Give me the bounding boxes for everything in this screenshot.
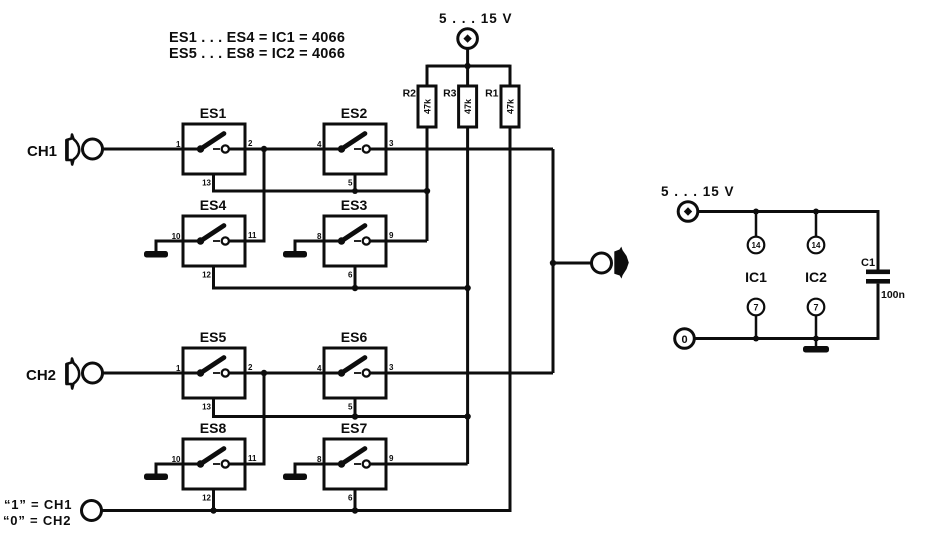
svg-text:47k: 47k bbox=[506, 98, 516, 114]
CH1 input terminal bbox=[83, 139, 103, 159]
CH2 input arrow icon bbox=[67, 359, 80, 389]
junction CH2 line to ES8 branch bbox=[261, 370, 267, 376]
junction ES2 pin5 on control row bbox=[352, 188, 358, 194]
svg-text:R3: R3 bbox=[443, 88, 457, 100]
svg-text:11: 11 bbox=[248, 231, 257, 240]
svg-text:100n: 100n bbox=[881, 289, 905, 301]
junction R2 line on control row bbox=[424, 188, 430, 194]
analog switch ES3 bbox=[317, 197, 394, 280]
wire output bus vertical bbox=[552, 149, 555, 373]
svg-text:ES6: ES6 bbox=[341, 329, 368, 345]
wire R1 down to control line bbox=[509, 127, 512, 511]
ground at ES7 bbox=[283, 474, 307, 481]
svg-text:2: 2 bbox=[248, 139, 253, 148]
svg-text:4: 4 bbox=[317, 364, 322, 373]
svg-text:ES4: ES4 bbox=[200, 197, 227, 213]
junction bottom rail IC1 bbox=[753, 336, 759, 342]
CH2 input terminal bbox=[83, 363, 103, 383]
analog switch ES7 bbox=[317, 420, 394, 503]
svg-text:47k: 47k bbox=[463, 98, 473, 114]
wire rail to IC2 pin14 bbox=[815, 212, 818, 237]
wire R2 down to ES3 output node bbox=[426, 127, 429, 241]
wire ES3 pin8 to ground bbox=[295, 241, 324, 252]
wire ES5 to ES6 bbox=[245, 372, 324, 375]
junction rail IC2 bbox=[813, 209, 819, 215]
svg-text:5: 5 bbox=[348, 179, 353, 188]
junction output node bbox=[550, 260, 556, 266]
svg-text:ES1: ES1 bbox=[200, 105, 227, 121]
output arrow (filled) bbox=[614, 247, 629, 279]
svg-text:3: 3 bbox=[389, 139, 394, 148]
svg-text:6: 6 bbox=[348, 271, 353, 280]
control input terminal bbox=[82, 501, 102, 521]
svg-text:C1: C1 bbox=[861, 257, 875, 269]
junction on top rail bbox=[464, 63, 470, 69]
svg-text:“1” = CH1: “1” = CH1 bbox=[4, 497, 72, 512]
svg-text:13: 13 bbox=[202, 179, 211, 188]
svg-text:7: 7 bbox=[753, 303, 758, 313]
wire ES4 pin10 to ground bbox=[156, 241, 183, 252]
CH1 input arrow icon bbox=[67, 135, 80, 165]
svg-text:0: 0 bbox=[681, 334, 687, 346]
IC2 pin 14 bbox=[808, 237, 825, 254]
wire right top rail bbox=[698, 212, 878, 270]
analog switch ES8 bbox=[172, 420, 257, 503]
svg-text:ES3: ES3 bbox=[341, 197, 368, 213]
wire C1 bottom to rail bbox=[877, 284, 880, 340]
junction ES7 pin6 bbox=[352, 507, 358, 513]
svg-text:5 . . . 15 V: 5 . . . 15 V bbox=[439, 11, 513, 26]
wire IC1 pin7 to bottom rail bbox=[755, 315, 758, 338]
junction row3 to R3 line bbox=[464, 413, 470, 419]
svg-text:ES5: ES5 bbox=[200, 329, 227, 345]
ground at ES3 bbox=[283, 251, 307, 258]
svg-text:7: 7 bbox=[813, 303, 818, 313]
resistor R1 bbox=[485, 86, 519, 127]
ground at ES4 bbox=[144, 251, 168, 258]
svg-text:3: 3 bbox=[389, 363, 394, 372]
svg-text:11: 11 bbox=[248, 454, 257, 463]
wire supply to rail bbox=[466, 48, 469, 66]
wire ES3 pin9 to R2 line bbox=[386, 240, 427, 243]
wire rail to R2 bbox=[426, 65, 429, 86]
wire CH2 to ES5 bbox=[103, 372, 184, 375]
wire ES7 pin9 up to R3 line bbox=[386, 463, 468, 466]
svg-text:9: 9 bbox=[389, 231, 394, 240]
analog switch ES5 bbox=[176, 329, 253, 412]
svg-text:R1: R1 bbox=[485, 88, 499, 100]
wire rail to R1 bbox=[509, 65, 512, 86]
junction ES3 pin6 bbox=[352, 285, 358, 291]
wire control line bbox=[102, 508, 511, 511]
svg-text:ES5 . . . ES8 = IC2 = 4066: ES5 . . . ES8 = IC2 = 4066 bbox=[169, 46, 345, 62]
junction CH1 line to ES4 branch bbox=[261, 146, 267, 152]
svg-text:ES8: ES8 bbox=[200, 420, 227, 436]
wire ES2 pin5 down bbox=[354, 174, 357, 191]
svg-text:CH2: CH2 bbox=[26, 367, 56, 384]
svg-text:13: 13 bbox=[202, 403, 211, 412]
svg-text:5: 5 bbox=[348, 403, 353, 412]
wire ES2 output to summing node bbox=[386, 148, 553, 151]
junction ES6 pin5 bbox=[352, 413, 358, 419]
wire ES1 to ES2 bbox=[245, 148, 324, 151]
wire ES6 output to summing node bbox=[386, 372, 553, 375]
svg-text:“0” = CH2: “0” = CH2 bbox=[3, 513, 71, 528]
supply terminal + (right) bbox=[678, 202, 698, 222]
svg-text:IC1: IC1 bbox=[745, 269, 767, 285]
wire ES3 pin6 down bbox=[354, 266, 357, 288]
svg-text:5 . . . 15 V: 5 . . . 15 V bbox=[661, 184, 735, 199]
IC1 pin 14 bbox=[748, 237, 765, 254]
ground at ES8 bbox=[144, 474, 168, 481]
svg-text:4: 4 bbox=[317, 140, 322, 149]
svg-text:12: 12 bbox=[202, 494, 211, 503]
wire ES7 pin6 down bbox=[354, 489, 357, 511]
svg-text:2: 2 bbox=[248, 363, 253, 372]
wire IC2 pin7 to ground bbox=[815, 315, 818, 346]
analog switch ES4 bbox=[172, 197, 257, 280]
resistor R3 bbox=[443, 86, 477, 127]
svg-text:ES1 . . . ES4 = IC1 = 4066: ES1 . . . ES4 = IC1 = 4066 bbox=[169, 30, 345, 46]
svg-text:CH1: CH1 bbox=[27, 143, 57, 160]
svg-text:ES7: ES7 bbox=[341, 420, 368, 436]
wire R3 down long bbox=[466, 127, 469, 464]
svg-text:R2: R2 bbox=[403, 88, 417, 100]
junction bottom rail IC2 bbox=[813, 336, 819, 342]
wire ES8 pin10 to ground bbox=[156, 464, 183, 474]
wire CH1 to ES1 bbox=[103, 148, 184, 151]
svg-text:14: 14 bbox=[812, 241, 821, 250]
supply terminal + (top) bbox=[458, 29, 478, 49]
svg-text:12: 12 bbox=[202, 271, 211, 280]
junction row2 to R3 line bbox=[464, 285, 470, 291]
wire ES6 pin5 down bbox=[354, 398, 357, 417]
wire to output terminal bbox=[553, 262, 592, 265]
svg-text:1: 1 bbox=[176, 364, 181, 373]
capacitor C1 bbox=[861, 257, 905, 301]
analog switch ES1 bbox=[176, 105, 253, 188]
svg-text:6: 6 bbox=[348, 494, 353, 503]
junction ES8 pin12 bbox=[210, 507, 216, 513]
svg-text:47k: 47k bbox=[423, 98, 433, 114]
wire right bottom rail bbox=[694, 337, 878, 340]
output terminal bbox=[592, 253, 612, 273]
wire ES5 pin13 row bbox=[214, 398, 468, 417]
resistor R2 bbox=[403, 86, 436, 127]
analog switch ES2 bbox=[317, 105, 394, 188]
zero terminal bbox=[675, 329, 695, 349]
junction rail IC1 bbox=[753, 209, 759, 215]
ground at IC2 pin7 bbox=[803, 346, 829, 353]
wire ES1 pin13 down bbox=[214, 174, 428, 191]
svg-text:ES2: ES2 bbox=[341, 105, 368, 121]
wire rail to R3 bbox=[466, 66, 469, 86]
wire rail to IC1 pin14 bbox=[755, 212, 758, 237]
wire ES7 pin8 to ground bbox=[295, 464, 324, 474]
svg-text:IC2: IC2 bbox=[805, 269, 827, 285]
wire ES8 pin12 down bbox=[212, 489, 215, 511]
wire ES4 pin12 row bbox=[214, 266, 468, 288]
IC2 pin 7 bbox=[808, 299, 825, 316]
wire top rail bbox=[427, 65, 510, 68]
wire branch down to ES8 pin 11 bbox=[245, 373, 264, 464]
svg-text:14: 14 bbox=[752, 241, 761, 250]
IC1 pin 7 bbox=[748, 299, 765, 316]
wire branch down to ES4 pin 11 bbox=[245, 149, 264, 241]
svg-text:1: 1 bbox=[176, 140, 181, 149]
svg-text:9: 9 bbox=[389, 454, 394, 463]
analog switch ES6 bbox=[317, 329, 394, 412]
